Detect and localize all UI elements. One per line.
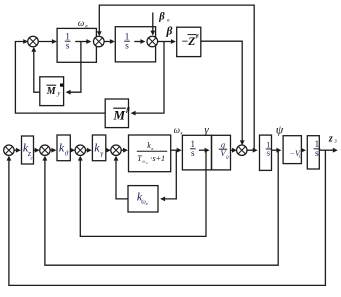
svg-text:M: M xyxy=(113,108,126,123)
svg-text:γ: γ xyxy=(204,124,209,136)
svg-text:в: в xyxy=(146,201,148,206)
svg-text:β: β xyxy=(195,34,199,40)
svg-text:·s+1: ·s+1 xyxy=(151,154,166,163)
svg-text:в: в xyxy=(151,146,153,151)
svg-text:z: z xyxy=(328,134,333,145)
svg-text:s: s xyxy=(267,148,270,158)
svg-text:ω: ω xyxy=(142,159,145,164)
svg-text:ω: ω xyxy=(174,125,180,135)
svg-text:ω: ω xyxy=(78,18,84,28)
svg-text:ψ: ψ xyxy=(276,123,284,137)
svg-text:γ: γ xyxy=(100,150,103,158)
svg-text:β: β xyxy=(166,26,173,38)
svg-text:β: β xyxy=(125,107,130,114)
svg-text:−Z: −Z xyxy=(181,36,195,48)
svg-text:s: s xyxy=(66,42,70,52)
svg-text:s: s xyxy=(315,149,319,159)
svg-text:ϑ: ϑ xyxy=(65,150,69,158)
svg-text:M: M xyxy=(46,86,57,97)
svg-text:s: s xyxy=(191,148,195,158)
svg-text:s: s xyxy=(125,42,129,52)
svg-text:β: β xyxy=(158,12,165,23)
svg-text:у: у xyxy=(56,90,60,97)
